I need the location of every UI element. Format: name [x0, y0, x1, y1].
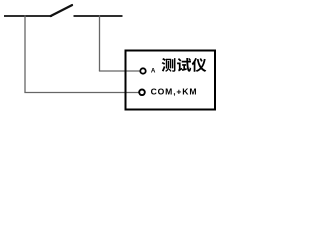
tester box (测试仪 instrument outline): [126, 51, 216, 110]
label 测试仪 (tester title, drawn as glyph outlines): [162, 58, 207, 72]
wire: bottom horizontal run to COM,+KM terminal: [24, 92, 138, 94]
terminal A (binding post circle): [140, 68, 145, 73]
switch S1 (open knife switch blade): [51, 5, 72, 16]
wire: left vertical drop from top bus: [24, 16, 26, 93]
svg-text:A: A: [151, 68, 156, 75]
wire: top horizontal, right of switch: [74, 15, 123, 17]
wire: horizontal run to A terminal: [99, 70, 140, 72]
wire: top horizontal, left of switch: [4, 15, 52, 17]
svg-text:COM,+KM: COM,+KM: [151, 86, 198, 96]
wire: right vertical drop from top bus: [99, 16, 101, 72]
terminal COM,+KM (binding post circle): [139, 90, 145, 96]
